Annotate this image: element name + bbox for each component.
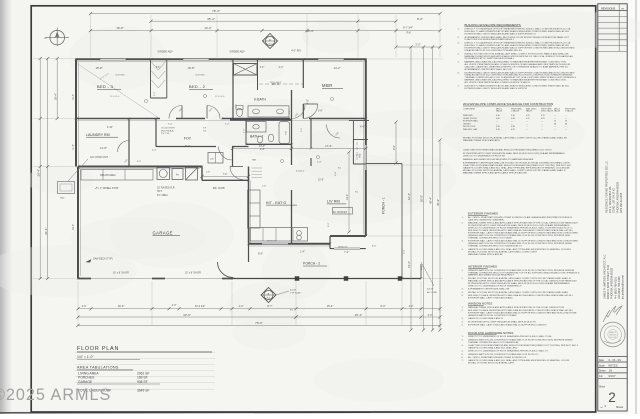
svg-text:15' x 8' OH DR: 15' x 8' OH DR — [185, 272, 201, 275]
svg-text:A PERMANENT CERTIFICATE SHALL: A PERMANENT CERTIFICATE SHALL BE POST — [465, 68, 514, 71]
svg-text:4'-0": 4'-0" — [420, 265, 424, 270]
svg-text:16'-8": 16'-8" — [187, 66, 194, 70]
svg-text:ALL VENTS, PENETRATIONS AND OT: ALL VENTS, PENETRATIONS AND OTHER SOURCE… — [465, 81, 531, 84]
svg-text:U VALUE: U VALUE — [511, 110, 520, 113]
svg-text:4" WHEEL STOP: 4" WHEEL STOP — [100, 187, 119, 190]
svg-text:36'-4": 36'-4" — [44, 228, 48, 235]
svg-text:V.K.: V.K. — [203, 130, 207, 132]
svg-text:APN 160-41-021B: APN 160-41-021B — [620, 192, 623, 213]
svg-text:3'-0": 3'-0" — [301, 127, 303, 132]
svg-text:26'-0": 26'-0" — [72, 224, 75, 230]
svg-text:15'-8": 15'-8" — [95, 66, 102, 70]
svg-text:8'-0": 8'-0" — [417, 17, 423, 21]
svg-text:BARRIER, AND DRAIN WILD AS REQ: BARRIER, AND DRAIN WILD AS REQUIRED TO M… — [463, 158, 534, 161]
svg-text:2'-0": 2'-0" — [404, 249, 406, 254]
svg-text:3'-0": 3'-0" — [137, 161, 141, 163]
svg-text:—: — — [541, 123, 543, 125]
svg-text:CEILING: CEILING — [463, 123, 471, 125]
svg-text:—: — — [526, 123, 528, 125]
svg-text:IN UNVENTED ATTIC, KEEP INSULA: IN UNVENTED ATTIC, KEEP INSULATION SHALL — [465, 57, 515, 60]
svg-text:UNFACED BATTS IN 2X4 CONSTRUCT: UNFACED BATTS IN 2X4 CONSTRUCTION AND MI… — [465, 49, 524, 52]
svg-text:2'-4": 2'-4" — [225, 124, 230, 126]
svg-text:TUB: TUB — [286, 130, 288, 135]
svg-text:6-31-09: 6-31-09 — [609, 359, 622, 362]
svg-text:4'-0": 4'-0" — [307, 99, 310, 104]
svg-text:1'-4": 1'-4" — [300, 251, 305, 254]
specification notes column — [458, 23, 580, 365]
svg-text:U-FACTORS FOR FENESTRATION AND: U-FACTORS FOR FENESTRATION AND RESULTS F… — [463, 149, 552, 152]
svg-text:MANUFACTURER SPECS AND APPL: MANUFACTURER SPECS AND APPL — [463, 139, 501, 142]
svg-text:EXTERIOR WALL CAVITY INSULATIO: EXTERIOR WALL CAVITY INSULATION AND WALL… — [465, 87, 528, 90]
svg-text:12'-1 1/2": 12'-1 1/2" — [195, 305, 206, 308]
svg-text:8'-0": 8'-0" — [258, 252, 263, 256]
svg-text:LIN: LIN — [210, 159, 214, 161]
svg-text:IN UNVENTED ATTIC, KEEP INSULA: IN UNVENTED ATTIC, KEEP INSULATION SHALL… — [468, 320, 536, 323]
svg-text:CAULKED, GASKETED, WEATHER-: CAULKED, GASKETED, WEATHER- — [468, 218, 504, 221]
svg-text:6x16 HDR: 6x16 HDR — [115, 75, 125, 77]
svg-text:B.I. BUFFET: B.I. BUFFET — [333, 211, 348, 214]
svg-text:2: 2 — [608, 390, 616, 405]
svg-text:—: — — [541, 129, 543, 131]
svg-text:2'-8": 2'-8" — [260, 148, 265, 151]
svg-text:—: — — [526, 126, 528, 128]
svg-text:2'-8": 2'-8" — [206, 172, 210, 174]
title block strip — [598, 4, 627, 411]
svg-text:PHOENIX, ARIZONA 85032: PHOENIX, ARIZONA 85032 — [611, 267, 614, 299]
svg-text:REVISIONS: REVISIONS — [601, 6, 615, 10]
svg-text:Drawn: Drawn — [599, 370, 606, 373]
svg-text:0.25: 0.25 — [541, 118, 545, 120]
svg-text:20'-4": 20'-4" — [53, 93, 57, 100]
svg-text:WOOD DOOR: WOOD DOOR — [463, 126, 476, 128]
svg-text:16'-0": 16'-0" — [116, 26, 123, 30]
svg-text:18" RAISED FLR: 18" RAISED FLR — [157, 187, 175, 190]
svg-text:GLASS DOORS: GLASS DOORS — [463, 117, 478, 120]
svg-text:0.40: 0.40 — [496, 115, 500, 117]
svg-text:BATH - 2: BATH - 2 — [250, 135, 263, 139]
svg-text:9'-8": 9'-8" — [393, 145, 396, 150]
svg-text:8'-0": 8'-0" — [381, 305, 386, 308]
svg-text:JW: JW — [609, 370, 613, 373]
svg-text:Sheet: Sheet — [599, 386, 605, 389]
svg-text:VALUE: VALUE — [526, 110, 533, 113]
svg-text:THERMAL CORRIDORS HELD OUT FLA: THERMAL CORRIDORS HELD OUT FLASHING AT T… — [468, 245, 522, 248]
svg-text:6'-10": 6'-10" — [107, 127, 113, 129]
svg-text:3'-2": 3'-2" — [260, 67, 265, 69]
svg-text:4'-2": 4'-2" — [279, 66, 284, 69]
svg-text:10'-8": 10'-8" — [318, 180, 324, 182]
svg-text:MUD RM A.A: MUD RM A.A — [161, 129, 174, 132]
svg-text:45'-4": 45'-4" — [436, 199, 440, 206]
svg-text:BUILDING ENVELOPE REQUIREMENTS: BUILDING ENVELOPE REQUIREMENTS — [465, 23, 521, 27]
svg-text:102 E. MANZANITA DR.: 102 E. MANZANITA DR. — [609, 186, 612, 213]
svg-text:5'-0": 5'-0" — [244, 128, 246, 133]
svg-text:DOOR AND HARDWARE NOTES: DOOR AND HARDWARE NOTES — [468, 331, 513, 335]
svg-text:jrw.architect@cox.net: jrw.architect@cox.net — [622, 275, 625, 300]
svg-text:LAUNDRY RM: LAUNDRY RM — [86, 133, 110, 137]
svg-text:—: — — [526, 121, 528, 123]
svg-text:5'-7 3/4": 5'-7 3/4" — [403, 26, 413, 30]
svg-text:5x5 W: 5x5 W — [427, 289, 434, 291]
svg-text:7'-6": 7'-6" — [223, 174, 228, 176]
svg-text:16'-4": 16'-4" — [407, 193, 411, 200]
svg-text:RESIDENCE FOR MD PROPERTIES 1: RESIDENCE FOR MD PROPERTIES 102 LLC — [606, 161, 609, 213]
svg-text:5'-6": 5'-6" — [156, 67, 161, 69]
svg-text:45'-4": 45'-4" — [207, 17, 215, 21]
svg-text:2012 ENVELOPE COMPLIANCE SCHED: 2012 ENVELOPE COMPLIANCE SCHEDULE FOR CO… — [463, 102, 553, 106]
svg-text:MANUFACTURER SPECS AND AP: MANUFACTURER SPECS AND AP — [468, 253, 503, 256]
svg-text:5'-2": 5'-2" — [289, 109, 291, 114]
svg-text:38: 38 — [554, 123, 556, 125]
svg-text:©2025 ARMLS: ©2025 ARMLS — [0, 386, 111, 404]
svg-text:PHOENIX, ARIZONA 85020: PHOENIX, ARIZONA 85020 — [616, 181, 619, 213]
svg-text:43'-0": 43'-0" — [183, 313, 191, 317]
svg-text:PAN: PAN — [252, 159, 257, 162]
svg-text:MANUFACTURER SPECS AND APPLICA: MANUFACTURER SPECS AND APPLICABLE SPECIF… — [468, 306, 565, 309]
svg-text:4'-4": 4'-4" — [152, 150, 157, 152]
svg-text:19: 19 — [565, 121, 567, 123]
svg-text:H BATH: H BATH — [254, 98, 266, 102]
svg-text:—: — — [496, 121, 498, 123]
svg-text:3'-0": 3'-0" — [154, 91, 156, 96]
svg-text:—: — — [565, 129, 567, 131]
svg-text:W.I.C.: W.I.C. — [272, 82, 280, 86]
svg-text:TYP SLAB: TYP SLAB — [290, 292, 301, 295]
svg-text:VALUE: VALUE — [554, 110, 561, 113]
svg-text:5'-4": 5'-4" — [317, 162, 322, 164]
svg-text:GASKETS, DOORS SEALS AND SILL: GASKETS, DOORS SEALS AND SILL SEAL, AND — [468, 346, 518, 349]
svg-text:Date: Date — [599, 359, 605, 362]
svg-text:25'-2": 25'-2" — [355, 313, 363, 317]
svg-text:—: — — [511, 121, 513, 123]
svg-text:1/4" = 1'-0": 1/4" = 1'-0" — [77, 355, 94, 359]
svg-text:GASKETS, DOORS SEALS AND SI: GASKETS, DOORS SEALS AND SI — [468, 317, 503, 320]
svg-text:12'-0 CLG: 12'-0 CLG — [110, 96, 120, 98]
svg-text:0.25: 0.25 — [541, 115, 545, 117]
svg-text:17'-6": 17'-6" — [325, 144, 332, 148]
svg-text:5'-4": 5'-4" — [168, 124, 173, 126]
svg-text:—: — — [565, 126, 567, 128]
svg-text:3649 SF: 3649 SF — [137, 389, 149, 393]
svg-text:75'-6": 75'-6" — [255, 321, 263, 325]
svg-text:16'-0": 16'-0" — [118, 304, 125, 308]
svg-text:8'-7": 8'-7" — [267, 304, 272, 308]
svg-text:EXTERIOR WALL CAVITY INSULATIO: EXTERIOR WALL CAVITY INSULATION AND WALL… — [465, 32, 537, 35]
svg-text:11'-8": 11'-8" — [72, 144, 75, 150]
svg-text:THERMAL CORRIDORS HELD OUT FLA: THERMAL CORRIDORS HELD OUT FLASH — [468, 236, 512, 239]
svg-text:13'-4": 13'-4" — [346, 194, 349, 200]
svg-text:16'x14'0 HIGH: 16'x14'0 HIGH — [161, 128, 175, 130]
svg-text:6'-0x5'-0: 6'-0x5'-0 — [296, 171, 305, 173]
svg-text:WINDOW NOTES: WINDOW NOTES — [468, 302, 492, 306]
svg-text:2'-0": 2'-0" — [428, 314, 433, 317]
svg-text:EQ: EQ — [355, 192, 358, 194]
svg-text:COND. LOT SPLIT #2: COND. LOT SPLIT #2 — [613, 188, 616, 213]
svg-text:PH: (602) 765-0151: PH: (602) 765-0151 — [614, 276, 617, 299]
svg-text:SHGC VALUE: SHGC VALUE — [541, 110, 554, 113]
svg-text:A+: A+ — [176, 172, 180, 176]
svg-text:COMPONENT: COMPONENT — [463, 108, 476, 110]
svg-text:0.25: 0.25 — [526, 115, 530, 117]
svg-text:FAX (602) 765-0153: FAX (602) 765-0153 — [618, 276, 621, 299]
svg-text:3'-4": 3'-4" — [335, 171, 337, 176]
svg-text:EQ: EQ — [290, 310, 293, 312]
svg-text:VALUE: VALUE — [496, 110, 503, 113]
svg-text:10'-4": 10'-4" — [306, 29, 313, 33]
svg-text:—: — — [496, 123, 498, 125]
svg-text:EXTERIOR FINISHES: EXTERIOR FINISHES — [468, 212, 498, 216]
svg-text:WALL ADJ. GAR.: WALL ADJ. GAR. — [463, 128, 478, 131]
svg-text:13: 13 — [554, 121, 556, 123]
svg-text:—: — — [554, 118, 556, 120]
svg-text:—: — — [541, 126, 543, 128]
svg-text:16'-2": 16'-2" — [72, 94, 75, 100]
svg-text:R.K.: R.K. — [407, 32, 412, 35]
svg-text:—: — — [541, 121, 543, 123]
svg-text:U-FACTORS FOR FENESTRATION AND: U-FACTORS FOR FENESTRATION AND RESULT — [465, 38, 515, 41]
svg-text:P.V. L'VD: P.V. L'VD — [161, 133, 170, 135]
svg-text:INTERIOR FINISHES: INTERIOR FINISHES — [468, 265, 497, 269]
svg-text:0.40: 0.40 — [496, 118, 500, 120]
svg-text:—: — — [565, 118, 567, 120]
svg-text:4'-0": 4'-0" — [82, 305, 87, 308]
svg-text:DIRECTLY TO UNDERSIDE OF ROOF: DIRECTLY TO UNDERSIDE OF ROOF SHEATHING … — [468, 335, 552, 338]
svg-text:P.V. AREA: P.V. AREA — [157, 194, 168, 197]
svg-text:2'-0": 2'-0" — [236, 104, 238, 108]
svg-text:26'-0": 26'-0" — [420, 195, 424, 202]
svg-text:—: — — [511, 123, 513, 125]
svg-text:NOTED: NOTED — [609, 364, 618, 367]
svg-text:16' x 8' OH DR: 16' x 8' OH DR — [113, 272, 129, 275]
svg-text:4'-0": 4'-0" — [239, 305, 244, 308]
svg-text:0.25: 0.25 — [526, 118, 530, 120]
svg-text:GIRDER ABV: GIRDER ABV — [157, 51, 173, 54]
svg-text:EXTERIOR WALL CAVITY INSULATIO: EXTERIOR WALL CAVITY INSULATION AND — [468, 297, 513, 300]
svg-text:0.40: 0.40 — [496, 129, 500, 131]
svg-text:FLOOR PLAN: FLOOR PLAN — [77, 346, 119, 352]
svg-text:MANUFACTURER SPECS AND APPLICA: MANUFACTURER SPECS AND APPLICABLE SPECIF… — [463, 171, 527, 174]
svg-text:WDW XO: WDW XO — [338, 247, 348, 249]
svg-text:SAW DECK (TYP): SAW DECK (TYP) — [93, 258, 113, 261]
svg-text:EXTERIOR WALL: EXTERIOR WALL — [463, 120, 478, 123]
svg-text:4'-6": 4'-6" — [360, 126, 365, 129]
svg-text:A PERMANENT CERTIFICATE SHALL: A PERMANENT CERTIFICATE SHALL BE — [468, 288, 510, 291]
svg-text:2'-0": 2'-0" — [416, 44, 421, 47]
svg-text:WATSON: WATSON — [609, 334, 617, 337]
svg-text:—: — — [565, 115, 567, 117]
svg-text:0.35: 0.35 — [511, 129, 515, 131]
svg-text:Scale: Scale — [599, 365, 605, 367]
svg-text:Sheets: Sheets — [616, 406, 624, 409]
svg-text:42'-4": 42'-4" — [429, 197, 433, 204]
svg-text:EXTERIOR WALL CAVITY INSULATIO: EXTERIOR WALL CAVITY INSULATION AND WALL… — [468, 323, 547, 326]
floor plan drawing — [33, 9, 443, 331]
svg-text:GARAGE: GARAGE — [153, 230, 173, 235]
svg-text:15'-4": 15'-4" — [327, 304, 334, 308]
svg-text:EQ: EQ — [338, 168, 341, 170]
svg-text:938 SF: 938 SF — [137, 380, 148, 384]
svg-text:6'-0": 6'-0" — [372, 246, 377, 248]
svg-text:INSTALL FOOTING SECTION, A MET: INSTALL FOOTING SECTION, A METAL LATH — [468, 362, 514, 365]
svg-text:—: — — [526, 129, 528, 131]
floor plan title and area tabulations — [75, 346, 215, 393]
svg-text:A/C COND UNIT: A/C COND UNIT — [90, 156, 108, 159]
svg-text:FOY.: FOY. — [184, 137, 192, 141]
svg-text:0967: 0967 — [609, 375, 616, 378]
svg-text:6x16 HDR: 6x16 HDR — [195, 75, 205, 77]
svg-text:GARAGE: GARAGE — [78, 380, 93, 384]
svg-text:WDW XO: WDW XO — [267, 241, 277, 243]
svg-text:LIV RM: LIV RM — [327, 200, 340, 204]
svg-text:DIRECTLY TO UNDERSIDE OF ROOF: DIRECTLY TO UNDERSIDE OF ROOF SH — [463, 156, 505, 158]
svg-text:12'-0 CLG: 12'-0 CLG — [215, 96, 225, 98]
svg-text:MBR: MBR — [322, 83, 333, 88]
svg-text:GIRDER ABV: GIRDER ABV — [229, 51, 245, 54]
svg-text:0.38: 0.38 — [511, 118, 515, 120]
svg-text:PORCH - 2: PORCH - 2 — [303, 262, 320, 266]
svg-text:R VALUE: R VALUE — [565, 110, 574, 113]
svg-text:N: N — [45, 36, 47, 40]
svg-text:15'-4": 15'-4" — [407, 261, 411, 268]
svg-text:HGT: HGT — [157, 191, 162, 193]
svg-text:WINDOWS: WINDOWS — [463, 115, 473, 117]
svg-text:ALL VENTS, PENETRATIONS AND OT: ALL VENTS, PENETRATIONS AND OTHER SOURCE… — [468, 356, 527, 359]
svg-text:DIRECTLY TO UNDERSIDE OF ROOF: DIRECTLY TO UNDERSIDE OF ROOF SHEATHING … — [468, 350, 548, 353]
svg-text:PORCH - 1: PORCH - 1 — [382, 197, 386, 214]
svg-text:4x4 W: 4x4 W — [290, 290, 297, 292]
svg-text:11'-8": 11'-8" — [100, 146, 107, 150]
svg-text:INSTALL FOOTING SECTION, A MET: INSTALL FOOTING SECTION, A METAL LATH SH… — [468, 291, 569, 294]
svg-text:14'-2": 14'-2" — [333, 66, 340, 70]
svg-text:BED - 3: BED - 3 — [97, 84, 114, 89]
svg-text:AREA TABULATIONS: AREA TABULATIONS — [77, 366, 119, 370]
svg-text:29'-4": 29'-4" — [36, 169, 40, 177]
svg-text:6'-2": 6'-2" — [356, 156, 361, 158]
svg-text:0.38: 0.38 — [511, 126, 515, 128]
svg-text:BIF. CURB: BIF. CURB — [213, 187, 225, 190]
svg-text:JAMES R. WATSON, ARCHITECT, PL: JAMES R. WATSON, ARCHITECT, PLC — [604, 254, 607, 299]
svg-text:2'-6": 2'-6" — [262, 186, 267, 188]
svg-text:0.40: 0.40 — [496, 126, 500, 128]
svg-text:BARRIER, AND DRAIN WILD AS REQ: BARRIER, AND DRAIN WILD AS REQUIRED T — [468, 274, 515, 277]
svg-text:9'-0": 9'-0" — [328, 222, 330, 227]
svg-text:KIT - EAT G: KIT - EAT G — [266, 201, 286, 205]
svg-text:16042 N. 32ND STREET, B-10: 16042 N. 32ND STREET, B-10 — [607, 264, 610, 299]
svg-text:BRUSH AREA: BRUSH AREA — [100, 174, 116, 177]
svg-text:—: — — [554, 115, 556, 117]
svg-text:7'-2": 7'-2" — [344, 251, 349, 254]
svg-text:3'-6": 3'-6" — [318, 111, 323, 113]
svg-text:78'-4": 78'-4" — [212, 9, 220, 13]
svg-text:9'-2": 9'-2" — [185, 144, 190, 148]
svg-text:14'-0": 14'-0" — [204, 26, 211, 30]
svg-text:UNFACED BATTS IN 2X4 CONSTRUCT: UNFACED BATTS IN 2X4 CONSTRUCTION AND MI… — [468, 353, 539, 356]
svg-text:AC COND: AC COND — [427, 291, 438, 294]
svg-text:4'-0" R/S: 4'-0" R/S — [291, 50, 301, 53]
svg-text:BED - 2: BED - 2 — [189, 84, 206, 89]
svg-text:UNFACED BATTS IN 2X4 CONSTRUCT: UNFACED BATTS IN 2X4 CONSTRUCTION AND — [468, 314, 517, 317]
svg-text:THERMAL CORRIDORS HELD OUT FLA: THERMAL CORRIDORS HELD OUT FLASHING AT — [468, 341, 519, 344]
svg-text:DIRECTLY TO UNDERSIDE OF ROOF: DIRECTLY TO UNDERSIDE OF ROOF SHEATHING … — [468, 284, 522, 287]
svg-text:0.38: 0.38 — [511, 115, 515, 117]
svg-text:—: — — [554, 126, 556, 128]
svg-text:2'-0": 2'-0" — [172, 304, 177, 307]
svg-text:38: 38 — [565, 123, 567, 125]
svg-text:—: — — [554, 129, 556, 131]
svg-text:PAD: PAD — [60, 197, 65, 200]
